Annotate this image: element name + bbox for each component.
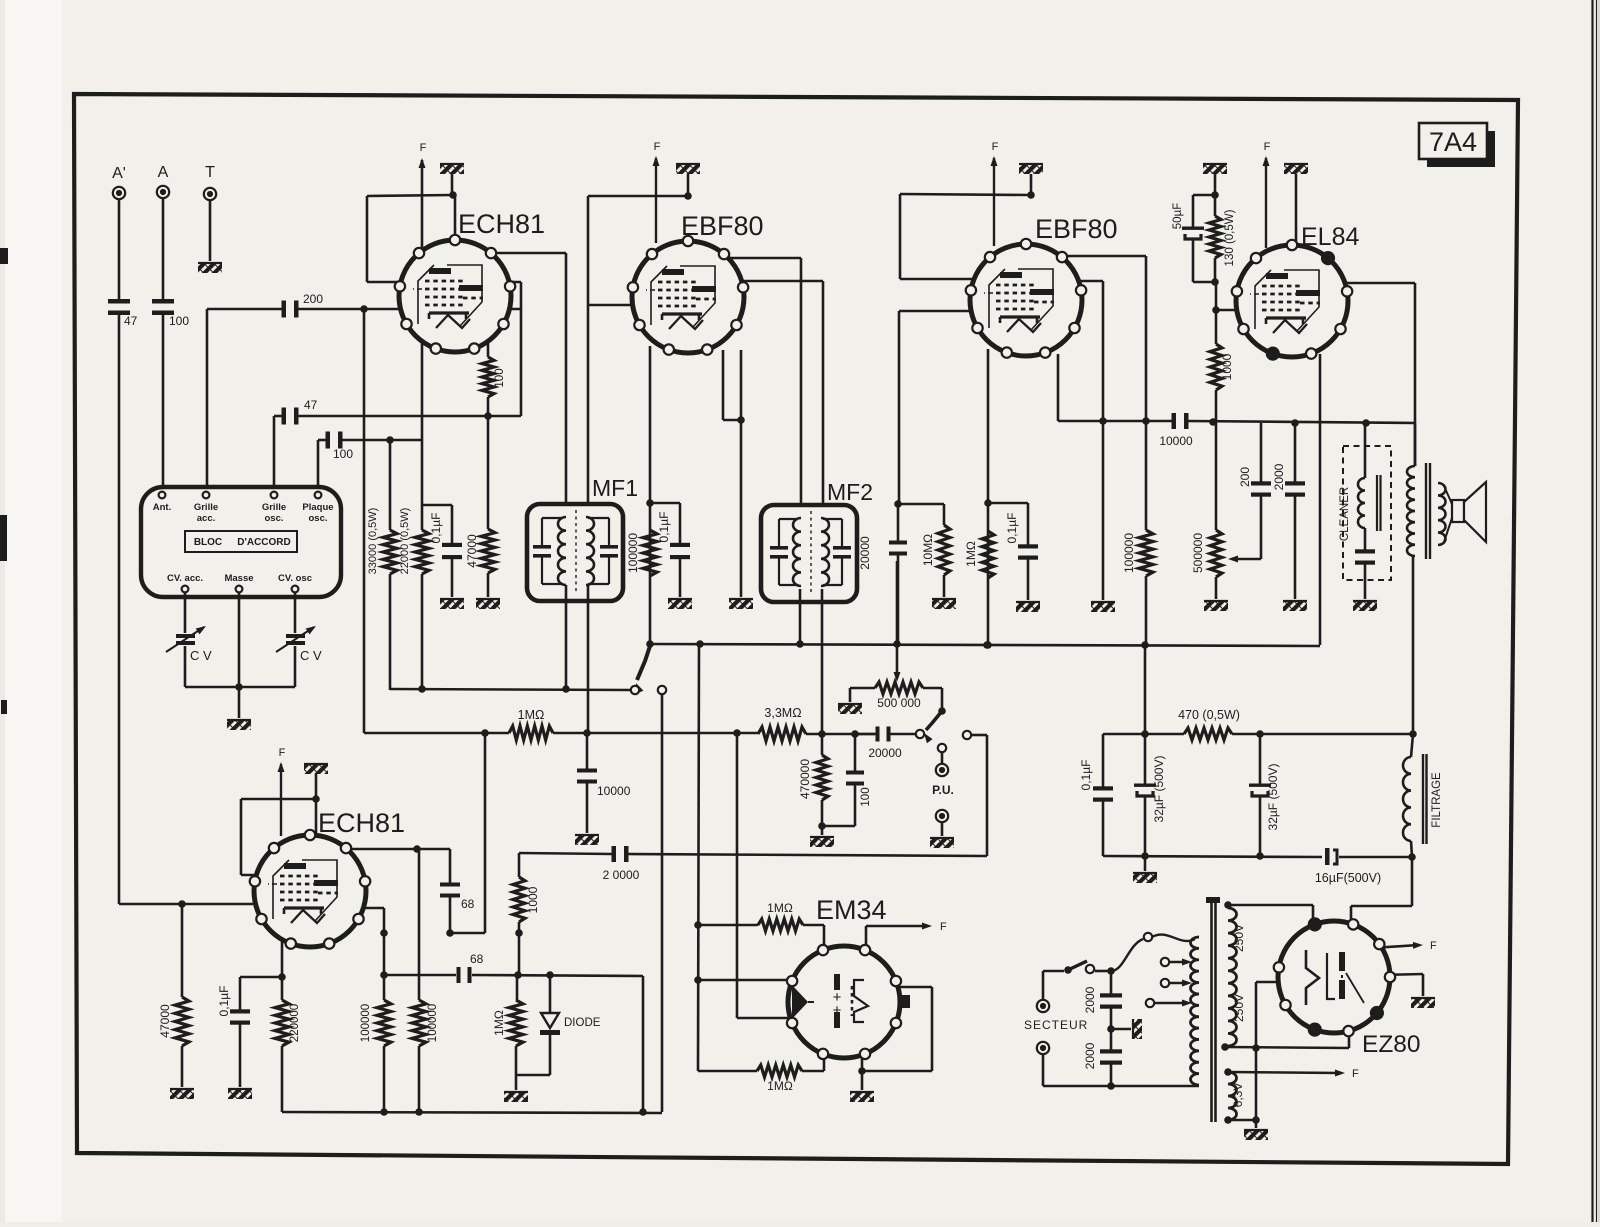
svg-text:EL84: EL84	[1301, 223, 1359, 251]
svg-text:CLEANER: CLEANER	[1339, 487, 1351, 541]
svg-text:6,3V: 6,3V	[1231, 1083, 1245, 1108]
svg-text:Plaque: Plaque	[302, 502, 333, 513]
svg-text:DIODE: DIODE	[564, 1017, 601, 1029]
svg-text:0,1µF: 0,1µF	[657, 512, 671, 543]
svg-text:ECH81: ECH81	[458, 209, 545, 239]
svg-text:3,3MΩ: 3,3MΩ	[764, 706, 801, 720]
svg-text:50µF: 50µF	[1172, 203, 1184, 229]
svg-text:10MΩ: 10MΩ	[921, 534, 935, 566]
svg-text:16µF(500V): 16µF(500V)	[1315, 871, 1381, 885]
svg-text:FILTRAGE: FILTRAGE	[1431, 772, 1443, 828]
svg-text:250V: 250V	[1232, 924, 1246, 952]
svg-text:EBF80: EBF80	[1035, 214, 1118, 244]
svg-text:T: T	[205, 164, 215, 181]
svg-text:68: 68	[470, 952, 484, 966]
svg-text:22000 (0,5W): 22000 (0,5W)	[399, 508, 411, 575]
svg-text:220000: 220000	[289, 1004, 301, 1042]
svg-text:47000: 47000	[158, 1004, 172, 1038]
svg-text:47: 47	[304, 398, 318, 412]
svg-text:500000: 500000	[1191, 533, 1205, 573]
svg-text:20000: 20000	[858, 536, 872, 570]
svg-text:0,1µF: 0,1µF	[429, 513, 443, 544]
svg-text:0,1µF: 0,1µF	[1005, 513, 1019, 544]
svg-text:200: 200	[1238, 467, 1252, 487]
svg-text:1MΩ: 1MΩ	[767, 901, 793, 915]
svg-text:F: F	[1430, 940, 1437, 952]
svg-text:470000: 470000	[798, 759, 812, 799]
svg-text:100: 100	[169, 314, 189, 328]
svg-text:200: 200	[303, 292, 323, 306]
svg-text:C V: C V	[190, 648, 212, 663]
svg-text:F: F	[1264, 141, 1271, 153]
svg-text:SECTEUR: SECTEUR	[1024, 1018, 1088, 1032]
svg-text:1MΩ: 1MΩ	[964, 541, 978, 567]
svg-text:F: F	[654, 141, 661, 153]
svg-text:32µF (500V): 32µF (500V)	[1266, 764, 1280, 831]
svg-text:MF2: MF2	[827, 479, 873, 505]
svg-text:1MΩ: 1MΩ	[767, 1079, 793, 1093]
svg-text:2 0000: 2 0000	[603, 868, 640, 882]
svg-text:osc.: osc.	[264, 513, 283, 524]
svg-text:1MΩ: 1MΩ	[518, 708, 545, 722]
svg-text:1000: 1000	[1220, 353, 1234, 380]
svg-text:D'ACCORD: D'ACCORD	[237, 537, 291, 548]
svg-text:EBF80: EBF80	[681, 211, 764, 241]
svg-text:100000: 100000	[427, 1004, 439, 1042]
svg-text:Grille: Grille	[194, 502, 218, 513]
svg-text:CV. acc.: CV. acc.	[167, 573, 203, 584]
svg-text:acc.: acc.	[197, 513, 216, 524]
svg-text:47000: 47000	[465, 534, 479, 568]
svg-text:2000: 2000	[1272, 463, 1286, 490]
svg-text:P.U.: P.U.	[932, 783, 954, 797]
svg-text:100000: 100000	[360, 1004, 372, 1042]
svg-text:0,1µF: 0,1µF	[1079, 760, 1093, 791]
svg-text:F: F	[420, 142, 427, 154]
svg-text:100: 100	[494, 368, 506, 387]
svg-text:1000: 1000	[526, 886, 540, 913]
svg-text:F: F	[992, 141, 999, 153]
svg-text:20000: 20000	[868, 746, 902, 760]
svg-text:F: F	[279, 747, 286, 759]
svg-text:7A4: 7A4	[1429, 127, 1477, 157]
svg-text:10000: 10000	[1159, 434, 1193, 448]
svg-text:130 (0,5W): 130 (0,5W)	[1224, 209, 1236, 266]
svg-text:47: 47	[124, 314, 138, 328]
svg-text:100: 100	[860, 787, 872, 806]
svg-text:EM34: EM34	[816, 895, 887, 925]
svg-text:250V: 250V	[1232, 994, 1246, 1022]
svg-text:Ant.: Ant.	[153, 502, 171, 513]
svg-text:2000: 2000	[1083, 986, 1097, 1013]
svg-text:CV. osc: CV. osc	[278, 573, 312, 584]
svg-text:Grille: Grille	[262, 502, 286, 513]
svg-text:500 000: 500 000	[877, 696, 921, 710]
svg-text:470 (0,5W): 470 (0,5W)	[1178, 708, 1240, 722]
svg-text:0,1µF: 0,1µF	[217, 986, 231, 1017]
svg-text:10000: 10000	[597, 784, 631, 798]
svg-text:32µF (500V): 32µF (500V)	[1152, 756, 1166, 823]
svg-text:osc.: osc.	[308, 513, 327, 524]
svg-text:F: F	[1352, 1068, 1359, 1080]
svg-text:A: A	[158, 164, 169, 181]
svg-text:68: 68	[461, 897, 475, 911]
svg-text:ECH81: ECH81	[318, 808, 405, 838]
svg-text:100000: 100000	[626, 533, 640, 573]
svg-text:MF1: MF1	[592, 475, 638, 501]
svg-text:EZ80: EZ80	[1362, 1031, 1421, 1058]
svg-text:BLOC: BLOC	[194, 537, 222, 548]
svg-text:Masse: Masse	[224, 573, 253, 584]
svg-text:100: 100	[333, 447, 353, 461]
svg-text:2000: 2000	[1083, 1042, 1097, 1069]
svg-text:C V: C V	[300, 648, 322, 663]
svg-text:1MΩ: 1MΩ	[492, 1010, 506, 1036]
svg-text:33000 (0,5W): 33000 (0,5W)	[367, 508, 379, 575]
svg-text:F: F	[940, 921, 947, 933]
svg-text:100000: 100000	[1122, 533, 1136, 573]
svg-text:A': A'	[112, 165, 126, 182]
